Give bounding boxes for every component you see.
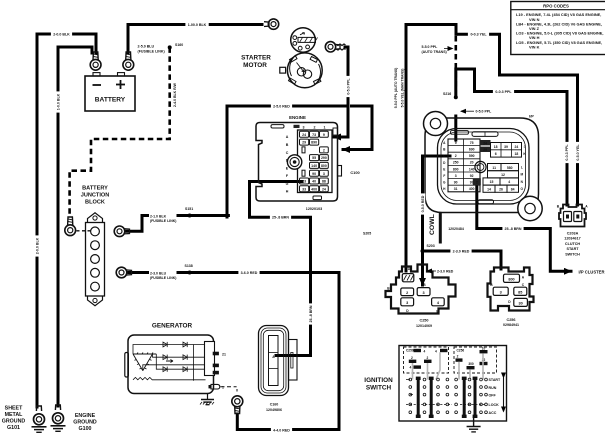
ring terminal starter battery cable xyxy=(264,19,279,29)
svg-text:92: 92 xyxy=(470,174,474,178)
svg-text:2: 2 xyxy=(323,148,325,152)
junction block upper right ring terminal xyxy=(114,226,129,237)
svg-text:I/P: I/P xyxy=(529,114,534,119)
svg-text:3: 3 xyxy=(303,126,305,130)
svg-text:12: 12 xyxy=(501,173,505,177)
connector C203A clutch start switch xyxy=(559,205,586,227)
svg-text:GENERATOR: GENERATOR xyxy=(152,323,193,330)
svg-text:G101: G101 xyxy=(7,425,20,431)
svg-text:2: 2 xyxy=(455,154,457,158)
svg-text:E: E xyxy=(443,167,445,171)
svg-text:STARTER: STARTER xyxy=(241,55,271,62)
svg-text:C256: C256 xyxy=(457,349,465,353)
wire 0-5.0 PPL starter solenoid S terminal to engine connector xyxy=(334,47,348,137)
splice S203 xyxy=(421,249,425,253)
wire 5-5.0 PPL auto trans dashed xyxy=(454,36,457,96)
svg-text:ENGINE: ENGINE xyxy=(289,115,306,120)
ignition switch internal gray links xyxy=(413,352,484,379)
svg-text:ENGINE: ENGINE xyxy=(75,413,96,419)
svg-text:4: 4 xyxy=(424,350,426,354)
svg-text:3: 3 xyxy=(406,301,408,305)
cowl pin bars 24 29 xyxy=(480,140,491,145)
generator BAT spade terminal xyxy=(209,384,220,389)
label 0-5.0 PPL vertical starter xyxy=(345,76,350,97)
svg-text:12049806: 12049806 xyxy=(266,408,282,412)
svg-text:METAL: METAL xyxy=(5,412,24,418)
ignition switch contact circles xyxy=(409,378,487,413)
svg-text:CLUTCH: CLUTCH xyxy=(565,242,580,246)
wire 1-00.0 BLK battery positive to starter motor xyxy=(128,25,262,54)
sheet metal ground G101 ring and symbol xyxy=(32,406,47,432)
svg-text:B: B xyxy=(286,143,289,147)
svg-text:2-0.0 BLK: 2-0.0 BLK xyxy=(53,32,70,36)
ring terminal starter solenoid S xyxy=(325,42,340,52)
wire ignition feed to C250 pin A xyxy=(406,25,456,272)
svg-text:C250: C250 xyxy=(419,319,428,323)
svg-text:0-5.0 RED: 0-5.0 RED xyxy=(421,195,425,212)
ignition switch connector face C250 (dashed) xyxy=(404,347,449,373)
battery xyxy=(85,73,135,111)
ignition switch lock row dashed xyxy=(406,403,486,405)
svg-text:300: 300 xyxy=(468,362,474,366)
svg-text:S216: S216 xyxy=(443,92,451,96)
svg-text:20: 20 xyxy=(470,161,474,165)
svg-text:0-5.0 PPL: 0-5.0 PPL xyxy=(346,78,350,95)
battery junction block xyxy=(86,213,105,306)
svg-text:250: 250 xyxy=(453,161,459,165)
generator body xyxy=(125,335,214,394)
wire 25-.8 BRN engine connector to C160 xyxy=(250,182,311,356)
label 2-0.0 BLK top xyxy=(51,31,72,36)
svg-text:590: 590 xyxy=(469,154,475,158)
svg-text:39: 39 xyxy=(504,145,508,149)
wire 0-5.0 PPL into cowl connector top xyxy=(454,116,457,140)
label 4-4.0 RED xyxy=(271,427,292,432)
svg-text:14: 14 xyxy=(487,187,491,191)
svg-text:25-.8 BRN: 25-.8 BRN xyxy=(272,216,289,220)
svg-text:START: START xyxy=(566,247,579,251)
svg-text:24: 24 xyxy=(515,145,519,149)
svg-text:IGNITION: IGNITION xyxy=(364,377,393,384)
svg-text:400: 400 xyxy=(311,187,317,191)
svg-text:18: 18 xyxy=(494,145,498,149)
engine ground G100 ring and symbol xyxy=(51,405,66,431)
label 0-0.3 PPL horizontal xyxy=(493,89,514,94)
starter motor xyxy=(280,53,322,88)
svg-text:140: 140 xyxy=(311,164,317,168)
svg-text:M: M xyxy=(520,173,523,177)
cowl bulkhead connector housing xyxy=(424,112,543,221)
svg-text:5-5.0 YEL (MAN TRANS): 5-5.0 YEL (MAN TRANS) xyxy=(401,69,405,108)
label 2-0.0 BLK vertical xyxy=(34,235,39,256)
svg-text:START: START xyxy=(489,378,502,382)
svg-text:2-3.0 RED: 2-3.0 RED xyxy=(437,269,454,273)
svg-text:2-5.0 BLU: 2-5.0 BLU xyxy=(138,45,155,49)
svg-text:5-5.0 PPL: 5-5.0 PPL xyxy=(422,45,439,49)
label 0-0.3 PPL vertical right xyxy=(564,142,569,163)
connector C160 xyxy=(259,326,298,396)
svg-text:800: 800 xyxy=(453,167,459,171)
svg-text:RPO CODES: RPO CODES xyxy=(543,3,569,8)
svg-text:(AUTO TRANS): (AUTO TRANS) xyxy=(422,50,447,54)
svg-text:2-0.0 BLK: 2-0.0 BLK xyxy=(35,237,39,254)
svg-text:890: 890 xyxy=(311,141,317,145)
svg-text:2: 2 xyxy=(427,356,429,360)
svg-text:2-4.0 BLK R/W: 2-4.0 BLK R/W xyxy=(173,82,177,107)
svg-text:BATTERY: BATTERY xyxy=(82,186,108,192)
svg-text:3: 3 xyxy=(423,291,425,295)
wire 2-0.0 BLK battery negative to sheet metal ground xyxy=(37,34,96,407)
svg-text:6: 6 xyxy=(495,152,497,156)
battery positive ring terminal xyxy=(123,52,134,70)
cowl connector mounting flange bar xyxy=(439,213,442,244)
svg-text:C100: C100 xyxy=(350,170,359,175)
svg-text:55: 55 xyxy=(312,156,316,160)
label 0-5.0 RED vertical xyxy=(420,193,425,214)
svg-text:G100: G100 xyxy=(79,426,92,432)
svg-text:84: 84 xyxy=(511,187,515,191)
svg-text:2: 2 xyxy=(314,126,316,130)
svg-text:11: 11 xyxy=(492,166,496,170)
svg-text:85: 85 xyxy=(518,291,522,295)
svg-text:J: J xyxy=(524,145,526,149)
svg-text:1-00.0 BLK: 1-00.0 BLK xyxy=(188,23,207,27)
svg-text:29: 29 xyxy=(483,148,487,152)
generator ground xyxy=(207,394,209,400)
svg-text:LOCK: LOCK xyxy=(489,403,500,407)
svg-text:5-5.0 PPL (AUTO TRANS): 5-5.0 PPL (AUTO TRANS) xyxy=(394,68,398,109)
svg-text:S205: S205 xyxy=(363,231,371,235)
svg-text:9: 9 xyxy=(323,133,325,137)
svg-text:JUNCTION: JUNCTION xyxy=(81,193,110,199)
svg-text:800: 800 xyxy=(321,164,327,168)
wire 2-1.0 BLK fusible link from battery junction block xyxy=(127,216,228,232)
generator output terminal block xyxy=(205,342,219,376)
svg-text:C: C xyxy=(286,151,289,155)
svg-text:1: 1 xyxy=(222,385,224,389)
cowl connector left pin grid xyxy=(448,139,480,192)
label 0-0.3 YEL xyxy=(468,32,489,37)
svg-text:0-0.3 PPL: 0-0.3 PPL xyxy=(565,144,569,161)
starter motor solenoid xyxy=(291,28,318,53)
svg-text:S203: S203 xyxy=(427,244,435,248)
svg-text:290: 290 xyxy=(321,156,327,160)
svg-text:C256: C256 xyxy=(506,318,515,322)
svg-text:25-.8 BRN: 25-.8 BRN xyxy=(309,305,313,322)
wire 1-0.0 BLK battery negative to engine ground xyxy=(58,47,92,406)
svg-text:88: 88 xyxy=(322,180,326,184)
svg-text:S151: S151 xyxy=(185,207,193,211)
svg-text:GROUND: GROUND xyxy=(2,419,26,425)
ignition switch pin bars left xyxy=(409,349,448,369)
wire 0-0.3 YEL to clutch start switch pin A xyxy=(456,34,578,205)
svg-text:3: 3 xyxy=(500,291,502,295)
svg-text:2: 2 xyxy=(411,356,413,360)
ignition switch pin bars right xyxy=(456,350,488,369)
svg-text:2: 2 xyxy=(406,291,408,295)
junction block left ring terminal xyxy=(65,217,76,236)
ignition switch contact bars xyxy=(418,379,475,418)
svg-text:4-4.0 RED: 4-4.0 RED xyxy=(273,428,290,432)
label 2-3.0 RED right xyxy=(450,248,471,253)
svg-text:2-5.0 RED: 2-5.0 RED xyxy=(273,104,290,108)
connector C250 xyxy=(386,265,456,314)
splice S151 xyxy=(188,214,192,218)
svg-text:12020484: 12020484 xyxy=(448,227,464,231)
splice S216 xyxy=(454,95,458,99)
svg-text:OFF: OFF xyxy=(489,393,497,397)
wire fusible link S160 to battery junction block (dashed) xyxy=(70,47,170,214)
svg-text:ACC: ACC xyxy=(489,411,497,415)
svg-text:(FUSIBLE LINK): (FUSIBLE LINK) xyxy=(150,219,176,223)
svg-text:0-0.3 PPL: 0-0.3 PPL xyxy=(495,90,512,94)
generator output ring terminal xyxy=(232,396,243,414)
svg-text:29: 29 xyxy=(302,141,306,145)
svg-text:3: 3 xyxy=(455,174,457,178)
engine connector pin grid xyxy=(298,130,333,193)
svg-text:30: 30 xyxy=(518,302,522,306)
svg-text:33: 33 xyxy=(302,187,306,191)
engine connector bolt xyxy=(287,155,301,169)
connector C256 xyxy=(488,268,534,311)
label 0-5.0 YEL vertical right xyxy=(575,142,580,163)
svg-text:0-5.0 YEL: 0-5.0 YEL xyxy=(576,144,580,161)
battery negative ring terminal xyxy=(90,52,101,70)
svg-text:12020103: 12020103 xyxy=(306,207,322,211)
svg-text:2: 2 xyxy=(457,355,459,359)
svg-text:9: 9 xyxy=(455,141,457,145)
svg-text:12034617: 12034617 xyxy=(564,237,580,241)
label 3-6.0 RED xyxy=(238,270,259,275)
label 1-00.0 BLK xyxy=(185,22,208,27)
svg-text:MOTOR: MOTOR xyxy=(243,62,267,69)
svg-text:2: 2 xyxy=(476,181,478,185)
svg-text:RUN: RUN xyxy=(489,386,497,390)
svg-text:C250: C250 xyxy=(406,349,414,353)
svg-text:24: 24 xyxy=(483,141,487,145)
svg-text:25-.8 BRN: 25-.8 BRN xyxy=(505,227,522,231)
svg-text:H: H xyxy=(286,190,289,194)
svg-text:4: 4 xyxy=(435,350,437,354)
svg-text:0-0.3 YEL: 0-0.3 YEL xyxy=(470,33,487,37)
svg-text:90: 90 xyxy=(454,181,458,185)
svg-text:23: 23 xyxy=(302,180,306,184)
label 2-1.0 BLK fusible link xyxy=(149,212,177,218)
ignition switch travel arrow xyxy=(503,378,505,412)
svg-text:12014069: 12014069 xyxy=(416,324,432,328)
svg-text:24: 24 xyxy=(302,133,306,137)
splice S138 xyxy=(188,271,192,275)
svg-text:(FUSIBLE LINK): (FUSIBLE LINK) xyxy=(150,276,176,280)
label 25-.8 BRN cowl xyxy=(502,226,523,231)
junction block lower right ring terminal xyxy=(116,267,131,278)
svg-text:(FUSIBLE LINK): (FUSIBLE LINK) xyxy=(138,49,166,53)
ignition switch ground xyxy=(473,418,475,427)
svg-text:I/P CLUSTER: I/P CLUSTER xyxy=(579,269,605,274)
svg-text:0-5.0 PPL: 0-5.0 PPL xyxy=(476,110,493,114)
label 25-.8 BRN engine xyxy=(270,215,291,220)
label 2-5.0 RED xyxy=(271,103,292,108)
svg-text:BATTERY: BATTERY xyxy=(95,97,126,104)
svg-text:4: 4 xyxy=(508,180,510,184)
svg-text:21: 21 xyxy=(222,353,226,357)
svg-text:26: 26 xyxy=(499,187,503,191)
RPO codes box xyxy=(511,2,605,55)
svg-text:BLOCK: BLOCK xyxy=(85,200,105,206)
wire 0-5.0 RED cowl connector feed through S203 xyxy=(423,156,451,285)
svg-text:C203A: C203A xyxy=(567,232,579,236)
svg-text:SWITCH: SWITCH xyxy=(565,252,580,256)
svg-text:2-3.0 BLU: 2-3.0 BLU xyxy=(150,271,167,275)
svg-text:90: 90 xyxy=(312,172,316,176)
svg-text:S160: S160 xyxy=(175,43,183,47)
label 1-0.0 BLK vertical xyxy=(55,91,60,112)
svg-text:140: 140 xyxy=(469,167,475,171)
svg-text:VIN K: VIN K xyxy=(529,44,540,49)
svg-text:31: 31 xyxy=(454,187,458,191)
wire 2-3.0 BLU / 3-6.0 RED / 4-4.0 RED junction block to generator xyxy=(129,273,339,430)
label 2-3.0 BLU fusible link xyxy=(149,269,177,275)
wire 2-3.0 RED S203 to C256 xyxy=(423,251,502,269)
svg-text:1: 1 xyxy=(324,126,326,130)
svg-text:S138: S138 xyxy=(185,264,193,268)
svg-text:15: 15 xyxy=(490,180,494,184)
svg-text:G: G xyxy=(286,182,289,186)
svg-text:400: 400 xyxy=(469,187,475,191)
svg-text:73: 73 xyxy=(312,133,316,137)
svg-text:C160: C160 xyxy=(270,403,279,407)
wire cowl connector to I/P cluster arrow xyxy=(477,181,571,271)
svg-text:75: 75 xyxy=(470,141,474,145)
svg-text:1-0.0 BLK: 1-0.0 BLK xyxy=(56,93,60,110)
svg-text:SHEET: SHEET xyxy=(5,406,23,412)
wire junction vertical starter feed xyxy=(226,106,229,217)
svg-text:40: 40 xyxy=(312,180,316,184)
wire 2-5.0 RED starter B to engine connector pin xyxy=(228,105,345,108)
svg-text:24: 24 xyxy=(322,187,326,191)
engine bulkhead connector C100 housing xyxy=(256,123,342,202)
svg-text:3: 3 xyxy=(323,172,325,176)
svg-text:690: 690 xyxy=(469,148,475,152)
svg-text:02984941: 02984941 xyxy=(503,323,519,327)
splice S160 xyxy=(168,45,172,49)
svg-text:2-3.0 RED: 2-3.0 RED xyxy=(453,249,470,253)
svg-text:4: 4 xyxy=(410,365,412,369)
svg-text:COWL: COWL xyxy=(429,214,436,235)
svg-text:SWITCH: SWITCH xyxy=(366,385,392,392)
svg-text:3-6.0 RED: 3-6.0 RED xyxy=(241,271,258,275)
ignition switch connector face C256 (dashed) xyxy=(454,347,497,373)
wire 0-0.3 PPL S216 to clutch start switch pin B xyxy=(456,69,567,205)
svg-text:10: 10 xyxy=(482,346,486,350)
label 25-.8 BRN vertical xyxy=(308,303,313,324)
svg-text:2-1.0 BLK: 2-1.0 BLK xyxy=(150,214,167,218)
svg-text:A: A xyxy=(286,135,289,139)
svg-text:GROUND: GROUND xyxy=(73,420,97,426)
cowl right lower stepped grid xyxy=(483,164,519,193)
ignition switch box xyxy=(399,346,507,422)
svg-text:800: 800 xyxy=(508,278,514,282)
svg-text:18: 18 xyxy=(515,152,519,156)
cowl right upper grid xyxy=(491,143,522,158)
generator internal wiring and diodes xyxy=(133,345,206,381)
generator stator winding delta xyxy=(133,352,156,370)
svg-text:L: L xyxy=(521,166,523,170)
svg-text:F: F xyxy=(443,174,445,178)
svg-text:580: 580 xyxy=(507,166,513,170)
